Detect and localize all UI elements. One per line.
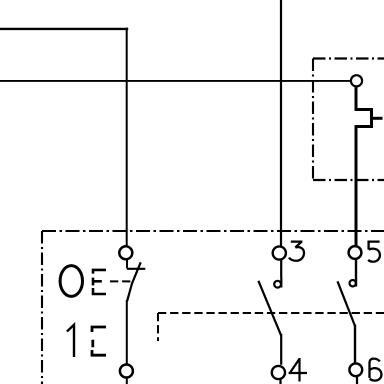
terminal circle line input bbox=[351, 75, 362, 86]
pole1 moving contact blade bbox=[127, 262, 141, 301]
enclosure box (dash-dot) top edge bbox=[42, 230, 384, 232]
wire pole3 to pin 6 bbox=[354, 325, 356, 364]
position symbol bracket for 0 bbox=[93, 270, 106, 294]
pin number 5 bbox=[368, 242, 380, 262]
terminal circle pin 3 bbox=[273, 246, 286, 259]
switch element stepped body bbox=[356, 87, 372, 247]
wire pole2 stub below pin 3 bbox=[280, 260, 282, 277]
wire pole1 stub below top terminal bbox=[126, 260, 128, 269]
terminal circle pole1 bottom bbox=[120, 365, 133, 378]
wire pole2 bottom exit bbox=[279, 379, 281, 384]
pole2 fixed contact hook bbox=[280, 277, 282, 288]
pin number 3 bbox=[289, 242, 304, 261]
pole2 moving contact blade bbox=[258, 281, 281, 336]
switch element side tick bbox=[372, 117, 383, 120]
enclosure box (dash-dot) left edge bbox=[41, 231, 43, 384]
position label 0 bbox=[60, 266, 82, 297]
pole3 fixed contact hook bbox=[355, 277, 357, 287]
terminal circle pin 4 bbox=[272, 366, 285, 379]
wire pole2 to pin 4 bbox=[280, 334, 282, 365]
mechanism dashed box vertical stub bbox=[157, 313, 159, 341]
pole3 moving contact blade bbox=[338, 281, 356, 326]
wire pole1 bottom exit bbox=[126, 377, 128, 384]
boundary box top-right (dash-dot) bottom edge bbox=[313, 179, 384, 181]
boundary box top-right (dash-dot) top edge bbox=[313, 57, 384, 59]
linkage dashes position 0 bbox=[110, 280, 132, 282]
pin number 4 bbox=[289, 358, 307, 382]
wire pole3 bottom exit bbox=[356, 376, 358, 384]
terminal circle pole1 top bbox=[119, 246, 132, 259]
position symbol bracket for 1 bbox=[92, 327, 106, 355]
wire pole3 stub below pin 5 bbox=[355, 259, 357, 277]
wire vertical drop to pole 1 bbox=[126, 28, 128, 247]
terminal circle pin 5 bbox=[349, 246, 362, 259]
wire vertical supply to pole 2 bbox=[280, 0, 282, 247]
mechanism linkage dashed line bbox=[158, 312, 384, 314]
wire horizontal bus bbox=[0, 80, 351, 82]
position label 1 bbox=[67, 325, 74, 357]
pin number 6 bbox=[370, 359, 382, 381]
terminal circle pin 6 bbox=[349, 363, 362, 376]
wire pole1 to bottom terminal bbox=[126, 300, 128, 365]
pole1 fixed contact tick bbox=[127, 268, 145, 270]
wire top feed horizontal bbox=[0, 28, 128, 30]
boundary box top-right (dash-dot) left edge bbox=[312, 59, 314, 181]
